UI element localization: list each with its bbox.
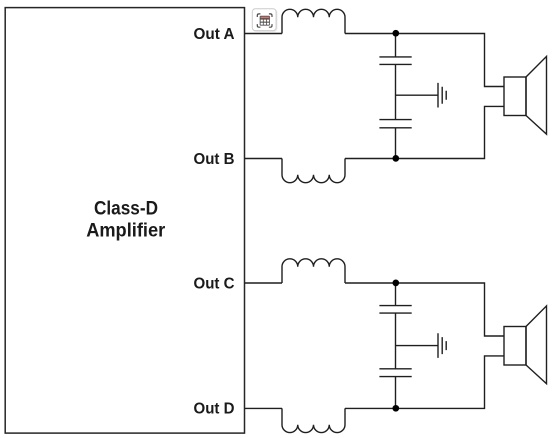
wire C2 to node N2: [395, 128, 397, 159]
capacitor C4: [379, 369, 411, 377]
junction node N4: [392, 405, 399, 412]
capacitor C3: [379, 306, 411, 314]
junction node N1: [392, 30, 399, 37]
wire L4 to node N4: [345, 407, 396, 409]
wire C4 to node N4: [395, 377, 397, 409]
wire Out A to L1: [245, 33, 283, 35]
wire Out C to L3: [245, 282, 283, 284]
wire node N3 to speaker feeder: [396, 283, 505, 336]
overlay UI button (table-capture icon): [252, 9, 277, 32]
amplifier block U1 Class-D Amplifier: [5, 8, 244, 434]
wire C1 to C2 (mid node): [395, 64, 397, 119]
svg-text:Out D: Out D: [194, 401, 235, 418]
svg-text:Amplifier: Amplifier: [86, 220, 165, 242]
ground symbol (circuit 1): [438, 83, 446, 108]
wire L1 to node N1: [345, 33, 396, 35]
wire C3 to C4 (mid node): [395, 313, 397, 369]
wire L2 to node N2: [345, 158, 396, 160]
wire Out D to L4: [245, 407, 283, 409]
junction node N2: [392, 155, 399, 162]
svg-text:Class-D: Class-D: [94, 197, 158, 219]
ground symbol (circuit 2): [438, 333, 446, 358]
speaker SP2 body: [504, 327, 526, 366]
speaker SP1 cone: [526, 56, 547, 134]
wire node N4 to speaker feeder: [396, 356, 505, 409]
speaker SP2 cone: [526, 306, 547, 384]
inductor L1: [282, 9, 345, 33]
wire Out B to L2: [245, 158, 283, 160]
inductor L4: [282, 408, 345, 432]
svg-text:Out C: Out C: [194, 276, 235, 293]
junction node N3: [392, 280, 399, 287]
inductor L2: [282, 159, 345, 183]
inductor L3: [282, 259, 345, 283]
icon table glyph: [260, 16, 270, 26]
wire L3 to node N3: [345, 282, 396, 284]
wire mid node to ground: [396, 94, 438, 96]
wire node N2 to speaker feeder: [396, 106, 505, 158]
icon corner brackets: [257, 14, 272, 27]
speaker SP1 body: [504, 77, 526, 116]
wire node N1 to speaker feeder: [396, 34, 505, 87]
capacitor C2: [379, 120, 411, 128]
wire N3 down to C3: [395, 283, 397, 306]
wire mid node to ground (circuit 2): [396, 345, 438, 347]
svg-text:Out A: Out A: [194, 26, 235, 43]
capacitor C1: [379, 57, 411, 65]
wire N1 down to C1: [395, 34, 397, 57]
svg-text:Out B: Out B: [194, 151, 235, 168]
